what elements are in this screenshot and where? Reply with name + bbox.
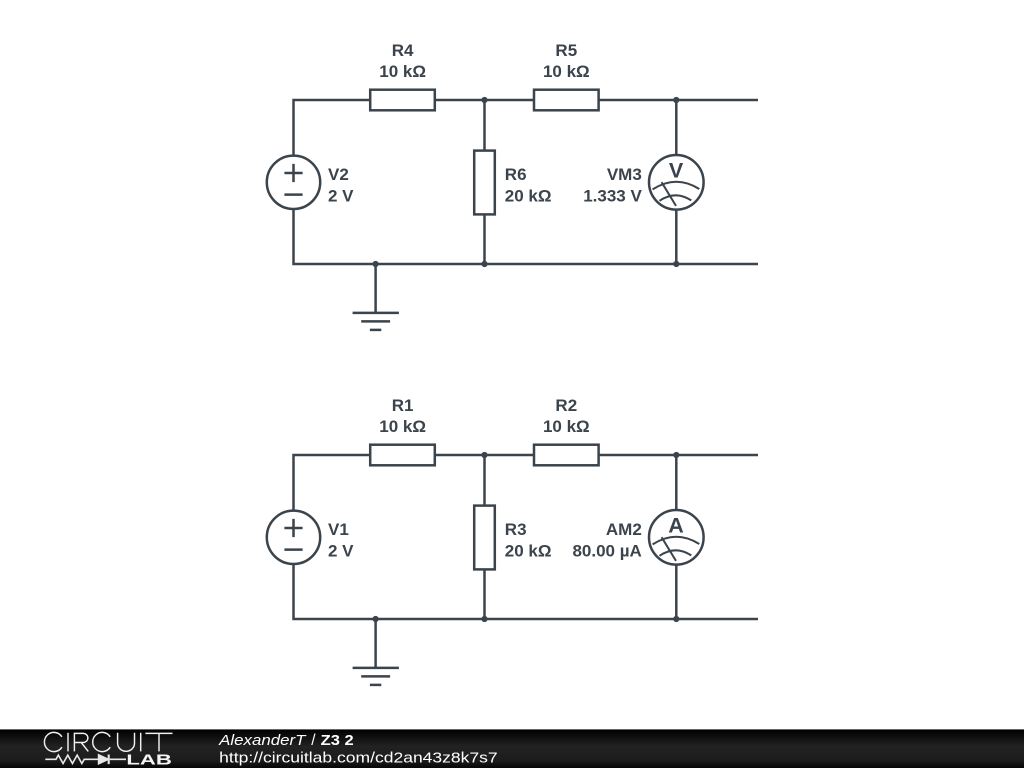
svg-text:V1: V1 (328, 520, 349, 539)
wire: bottom rail with left corner up to V2 (294, 209, 759, 264)
footer title: AlexanderT / Z3 2 (218, 732, 354, 749)
svg-text:20 kΩ: 20 kΩ (505, 541, 552, 560)
node: bottom rail / VM3 junction (673, 261, 679, 267)
wire: top rail with left corner down to V1 (294, 455, 759, 511)
svg-text:1.333 V: 1.333 V (583, 186, 642, 205)
CircuitLab logo text CIRCUIT (hand-drawn thin letters) (44, 732, 172, 751)
node: bottom rail / R3 junction (481, 616, 487, 622)
wire: top rail with left corner down to V2 (294, 100, 759, 156)
voltage source V1 (267, 511, 320, 564)
wire: AM2 branch vertical (675, 455, 678, 619)
svg-text:/: / (311, 732, 316, 749)
svg-text:R6: R6 (505, 165, 527, 184)
wire: R6 branch vertical (483, 100, 486, 264)
ground (top circuit) (353, 264, 399, 330)
svg-text:AlexanderT: AlexanderT (218, 733, 307, 749)
ground (bottom circuit) (353, 619, 399, 685)
node: bottom rail / R6 junction (481, 261, 487, 267)
node: top rail / AM2 junction (673, 452, 679, 458)
svg-text:10 kΩ: 10 kΩ (379, 417, 426, 436)
svg-text:R3: R3 (505, 520, 527, 539)
svg-text:20 kΩ: 20 kΩ (505, 186, 552, 205)
resistor R6 (vertical) (474, 151, 495, 215)
resistor R2 (534, 445, 599, 466)
svg-text:2 V: 2 V (328, 541, 354, 560)
CircuitLab logo resistor-diode art (45, 755, 126, 765)
svg-text:2 V: 2 V (328, 186, 354, 205)
ammeter AM2 (649, 510, 704, 565)
resistor R4 (370, 90, 435, 111)
voltage source V2 (267, 156, 320, 209)
svg-text:R4: R4 (392, 41, 414, 60)
node: bottom rail / ground junction (373, 616, 379, 622)
svg-text:V: V (669, 158, 684, 182)
node: top rail / VM3 junction (673, 97, 679, 103)
footer bar background (0, 729, 1024, 768)
svg-text:80.00 µA: 80.00 µA (572, 541, 641, 560)
svg-text:10 kΩ: 10 kΩ (543, 62, 590, 81)
node: bottom rail / ground junction (373, 261, 379, 267)
svg-text:R1: R1 (392, 396, 414, 415)
svg-text:A: A (668, 513, 684, 537)
svg-text:10 kΩ: 10 kΩ (379, 62, 426, 81)
svg-text:R2: R2 (555, 396, 577, 415)
node: top rail / R3 junction (481, 452, 487, 458)
svg-text:Z3 2: Z3 2 (321, 732, 354, 749)
wire: bottom rail with left corner up to V1 (294, 564, 759, 619)
resistor R3 (vertical) (474, 506, 495, 570)
svg-text:R5: R5 (555, 41, 577, 60)
node: bottom rail / AM2 junction (673, 616, 679, 622)
svg-text:AM2: AM2 (606, 520, 642, 539)
wire: R3 branch vertical (483, 455, 486, 619)
resistor R1 (370, 445, 435, 466)
resistor R5 (534, 90, 599, 111)
svg-text:10 kΩ: 10 kΩ (543, 417, 590, 436)
node: top rail / R6 junction (481, 97, 487, 103)
svg-text:V2: V2 (328, 165, 349, 184)
svg-text:LAB: LAB (126, 753, 171, 768)
svg-text:http://circuitlab.com/cd2an43z: http://circuitlab.com/cd2an43z8k7s7 (219, 749, 498, 766)
svg-text:VM3: VM3 (607, 165, 642, 184)
voltmeter VM3 (649, 155, 704, 210)
wire: VM3 branch vertical (675, 100, 678, 264)
